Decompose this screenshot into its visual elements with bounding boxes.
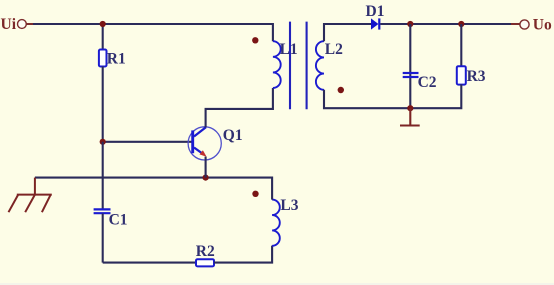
wire base wire (103, 141, 192, 143)
wire R1 top lead (102, 24, 104, 50)
wire L2 top lead to diode (324, 24, 371, 41)
svg-text:R3: R3 (467, 68, 486, 85)
wire R1 bottom lead to base junction (102, 67, 104, 142)
svg-text:D1: D1 (366, 3, 385, 20)
wire bottom rail right of R2 up to L3 (214, 246, 272, 263)
node Ui terminal (18, 20, 27, 29)
svg-text:R2: R2 (196, 243, 215, 260)
wire C2 top lead (409, 24, 411, 108)
resistor R3 (457, 66, 466, 84)
wire R3 top lead (460, 24, 462, 67)
node junction C2 bottom (407, 105, 413, 111)
svg-text:Uo: Uo (533, 17, 552, 34)
node junction C2 top (407, 21, 413, 27)
wire bottom rail left of R2 (103, 262, 197, 264)
capacitor C2 (403, 73, 419, 77)
node junction R3 top (458, 21, 464, 27)
svg-text:L3: L3 (280, 197, 298, 214)
resistor R1 (99, 50, 107, 67)
diode D1 (371, 18, 379, 29)
wire L2 bottom rail to R3 bottom (324, 84, 461, 108)
wire C1 bottom lead (102, 214, 104, 263)
transistor Q1 (188, 127, 221, 160)
svg-text:R1: R1 (107, 51, 126, 68)
wire vertical down to C1 (102, 142, 104, 210)
node polarity dot L3 (252, 191, 258, 197)
svg-text:Ui: Ui (1, 16, 17, 33)
wire top rail Ui to L1 (33, 24, 273, 41)
ground right (400, 108, 420, 125)
transformer core (290, 22, 307, 110)
svg-text:Q1: Q1 (223, 127, 243, 144)
wire emitter lead (205, 157, 207, 178)
wire diode to Uo (380, 23, 511, 25)
node polarity dot L1 (252, 37, 258, 43)
svg-text:L1: L1 (280, 41, 298, 58)
node junction base (100, 139, 106, 145)
capacitor C1 (94, 209, 111, 213)
node junction emitter (203, 175, 209, 181)
wire ground rail and L3 top lead (35, 178, 272, 200)
inductor L2 (316, 41, 324, 90)
node polarity dot L2 (338, 87, 344, 93)
wire Uo red stub (511, 23, 520, 25)
inductor L1 (273, 41, 281, 88)
ground left (9, 178, 52, 213)
node Uo terminal (520, 20, 529, 29)
svg-text:C2: C2 (418, 74, 437, 91)
wire collector lead (206, 88, 273, 127)
svg-text:L2: L2 (325, 41, 343, 58)
svg-text:C1: C1 (109, 212, 128, 229)
wire Ui red stub (27, 23, 34, 25)
inductor L3 (272, 200, 280, 246)
node junction top-left (100, 21, 106, 27)
resistor R2 (196, 259, 214, 266)
